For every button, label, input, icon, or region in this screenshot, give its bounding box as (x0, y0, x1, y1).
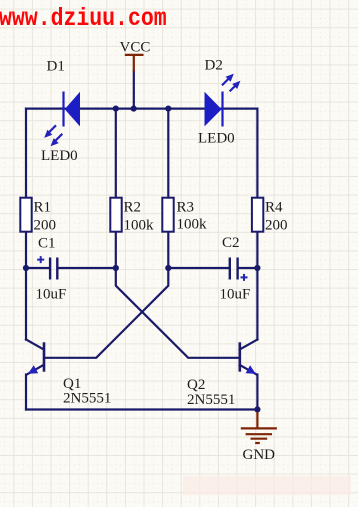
svg-text:LED0: LED0 (198, 131, 235, 147)
svg-text:R3: R3 (177, 200, 195, 216)
svg-text:10uF: 10uF (36, 287, 67, 303)
svg-text:200: 200 (34, 218, 57, 234)
svg-text:VCC: VCC (120, 40, 151, 56)
svg-text:R2: R2 (124, 200, 142, 216)
svg-text:D2: D2 (205, 58, 223, 74)
svg-text:C2: C2 (222, 235, 240, 251)
svg-text:100k: 100k (177, 217, 208, 233)
svg-text:2N5551: 2N5551 (63, 391, 111, 407)
svg-text:2N5551: 2N5551 (187, 392, 235, 408)
svg-text:C1: C1 (38, 236, 56, 252)
svg-text:R1: R1 (34, 200, 52, 216)
svg-text:10uF: 10uF (220, 287, 251, 303)
svg-text:D1: D1 (47, 59, 65, 75)
svg-text:GND: GND (243, 447, 276, 463)
svg-text:200: 200 (265, 218, 288, 234)
svg-text:www.dziuu.com: www.dziuu.com (0, 5, 167, 34)
svg-text:R4: R4 (265, 200, 283, 216)
svg-text:Q2: Q2 (187, 377, 205, 393)
svg-text:LED0: LED0 (41, 148, 78, 164)
svg-text:100k: 100k (124, 218, 155, 234)
